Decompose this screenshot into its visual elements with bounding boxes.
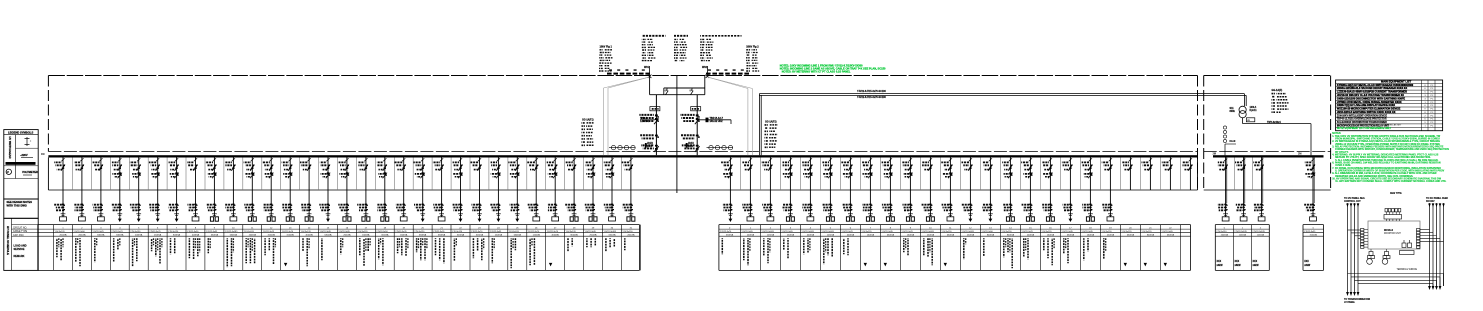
svg-text:YJV22-3x185: YJV22-3x185 (801, 231, 814, 233)
svg-text:REMARK: REMARK (14, 255, 25, 258)
svg-text:200kVA: 200kVA (78, 234, 86, 237)
svg-text:CABLE TYPE: CABLE TYPE (13, 230, 28, 233)
svg-text:YJV-3x120: YJV-3x120 (566, 231, 577, 233)
svg-text:315kVA: 315kVA (457, 234, 465, 237)
svg-text:125kVA: 125kVA (533, 234, 541, 237)
svg-text:315kVA: 315kVA (268, 234, 276, 237)
svg-text:11. ANY MATTERS NOT COVERED SH: 11. ANY MATTERS NOT COVERED SHALL COMPLY… (1335, 180, 1447, 183)
svg-text:~220V: ~220V (20, 153, 28, 157)
svg-text:10kV: 10kV (688, 145, 694, 148)
svg-text:YJV22-3x70: YJV22-3x70 (111, 231, 123, 233)
svg-text:630kVA: 630kVA (1067, 234, 1075, 237)
svg-text:NOTE3: HV METERING WITH CT PT: NOTE3: HV METERING WITH CT PT CLASS 0.2S… (782, 70, 851, 74)
svg-text:YJV-3x150: YJV-3x150 (1101, 231, 1112, 233)
svg-text:200kVA: 200kVA (1027, 234, 1035, 237)
svg-text:Dyn11: Dyn11 (1250, 109, 1258, 112)
svg-text:315kVA: 315kVA (287, 234, 295, 237)
svg-text:YJV22-3x95: YJV22-3x95 (741, 231, 753, 233)
svg-text:W01: W01 (644, 66, 650, 69)
svg-text:YJV-3x150: YJV-3x150 (130, 231, 141, 233)
svg-text:GG-1A(F2): GG-1A(F2) (765, 120, 777, 123)
svg-text:10kV Fig 2: 10kV Fig 2 (746, 46, 759, 49)
svg-text:TO TRANSFORMER RM: TO TRANSFORMER RM (1344, 298, 1370, 301)
svg-text:YJV-3x150: YJV-3x150 (622, 231, 633, 233)
svg-text:YJV22-8.7/15-3x70-SC100: YJV22-8.7/15-3x70-SC100 (857, 90, 887, 93)
svg-text:LEGEND SYMBOLS: LEGEND SYMBOLS (8, 130, 33, 134)
svg-text:10kV: 10kV (647, 145, 653, 148)
svg-text:YJV22-3x35: YJV22-3x35 (490, 231, 502, 233)
svg-text:TO DC PANEL FEED: TO DC PANEL FEED (1426, 197, 1448, 200)
svg-text:XXX: XXX (1304, 261, 1309, 263)
svg-text:YJV-3x120: YJV-3x120 (452, 231, 463, 233)
svg-text:2M: 2M (1213, 153, 1216, 156)
svg-text:YJV-3x120: YJV-3x120 (357, 231, 368, 233)
svg-text:XXX: XXX (1235, 261, 1240, 263)
svg-text:YJV22-3x25: YJV22-3x25 (92, 231, 104, 233)
svg-text:HV PANEL SCHEDULE: HV PANEL SCHEDULE (6, 226, 10, 255)
svg-text:YJV-3x150: YJV-3x150 (1001, 231, 1012, 233)
svg-text:W02: W02 (702, 66, 708, 69)
svg-text:630kVA: 630kVA (211, 234, 219, 237)
svg-text:YJV22-3x185: YJV22-3x185 (225, 231, 238, 233)
svg-text:YJV22-3x35: YJV22-3x35 (338, 231, 350, 233)
svg-text:YJV22-3x95: YJV22-3x95 (1161, 231, 1173, 233)
svg-text:800kVA: 800kVA (1007, 234, 1015, 237)
svg-text:400kVA: 400kVA (306, 234, 314, 237)
svg-text:630kVA: 630kVA (419, 234, 427, 237)
svg-text:YJV22-3x185: YJV22-3x185 (921, 231, 934, 233)
svg-text:YJV22-3x50: YJV22-3x50 (981, 231, 993, 233)
svg-text:250kVA: 250kVA (495, 234, 503, 237)
svg-text:YJV-3x150: YJV-3x150 (1216, 231, 1227, 233)
svg-text:400kVA: 400kVA (552, 234, 560, 237)
svg-text:315kVA: 315kVA (1310, 234, 1318, 237)
svg-text:YJV22-3x25: YJV22-3x25 (263, 231, 275, 233)
svg-text:200kVA: 200kVA (59, 234, 67, 237)
svg-text:YJV22-3x25: YJV22-3x25 (149, 231, 161, 233)
svg-text:YJV-3x120: YJV-3x120 (244, 231, 255, 233)
svg-text:YJV22-3x95: YJV22-3x95 (433, 231, 445, 233)
svg-text:200kVA: 200kVA (747, 234, 755, 237)
svg-text:YJV22-3x50: YJV22-3x50 (376, 231, 388, 233)
svg-text:400kVA: 400kVA (192, 234, 200, 237)
svg-text:YJV22-3x50: YJV22-3x50 (187, 231, 199, 233)
svg-text:TBP-B-12.7/131 OVERVOLTAGE PRO: TBP-B-12.7/131 OVERVOLTAGE PROTECTOR (1337, 118, 1387, 121)
svg-text:DC110V: DC110V (1426, 201, 1435, 203)
svg-text:YJV-3x120: YJV-3x120 (1121, 231, 1132, 233)
svg-text:M: M (7, 170, 9, 174)
svg-text:YJV-3x150: YJV-3x150 (941, 231, 952, 233)
svg-text:250kVA: 250kVA (343, 234, 351, 237)
svg-text:x8kW: x8kW (1235, 265, 1242, 267)
svg-text:400kVA: 400kVA (847, 234, 855, 237)
svg-text:WITH THIS DWG: WITH THIS DWG (7, 203, 27, 207)
svg-text:12.7/131: 12.7/131 (640, 120, 650, 123)
svg-text:315kVA: 315kVA (476, 234, 484, 237)
svg-text:YJV-3x120: YJV-3x120 (509, 231, 520, 233)
svg-text:XGN TYPE: XGN TYPE (1390, 193, 1402, 195)
svg-text:YJV22-3x185: YJV22-3x185 (604, 231, 617, 233)
svg-text:MONITOR UNIT: MONITOR UNIT (1384, 233, 1401, 235)
svg-text:XXX: XXX (1253, 261, 1258, 263)
svg-text:250kVA: 250kVA (589, 234, 597, 237)
svg-text:YJV22-3x95: YJV22-3x95 (781, 231, 793, 233)
svg-text:DL/dl: DL/dl (1230, 141, 1236, 143)
svg-text:250kVA: 250kVA (967, 234, 975, 237)
svg-text:630kVA: 630kVA (97, 234, 105, 237)
svg-text:YJV22-3x35: YJV22-3x35 (1304, 231, 1316, 233)
svg-text:CONTROL CCT: CONTROL CCT (1344, 201, 1361, 203)
svg-text:630kVA: 630kVA (947, 234, 955, 237)
svg-text:GG-1A(F): GG-1A(F) (1272, 89, 1283, 92)
svg-text:YJV22-3x185: YJV22-3x185 (1234, 231, 1247, 233)
svg-text:x3kW: x3kW (1304, 265, 1311, 267)
svg-text:400kVA: 400kVA (135, 234, 143, 237)
svg-text:800kVA: 800kVA (1147, 234, 1155, 237)
svg-text:800k: 800k (1230, 110, 1236, 113)
svg-text:200kVA: 200kVA (1221, 234, 1229, 237)
svg-text:YJV22-3x185: YJV22-3x185 (1252, 231, 1265, 233)
svg-text:WZJK-II: WZJK-II (1384, 229, 1393, 232)
svg-text:160kVA: 160kVA (867, 234, 875, 237)
svg-text:YJV22-3x185: YJV22-3x185 (821, 231, 834, 233)
svg-text:CAP. (kW): CAP. (kW) (13, 234, 24, 237)
svg-text:HV SWITCHGEAR: HV SWITCHGEAR (8, 137, 12, 159)
svg-text:800kVA: 800kVA (987, 234, 995, 237)
svg-text:160kVA: 160kVA (1087, 234, 1095, 237)
svg-text:LV PANEL: LV PANEL (1344, 301, 1356, 304)
svg-text:TMY-3x40x4: TMY-3x40x4 (1267, 121, 1281, 124)
svg-text:BUSBAR AND SECONDARY COMPONENT: BUSBAR AND SECONDARY COMPONENTS SUPPLIED… (1337, 124, 1402, 127)
svg-text:400kVA: 400kVA (807, 234, 815, 237)
svg-text:630kVA: 630kVA (116, 234, 124, 237)
svg-text:250kVA: 250kVA (1107, 234, 1115, 237)
svg-text:YJV-3x120: YJV-3x120 (55, 231, 66, 233)
svg-text:YJV22-3x70: YJV22-3x70 (528, 231, 540, 233)
svg-text:YJV22-3x70: YJV22-3x70 (901, 231, 913, 233)
svg-text:YJV-3x120: YJV-3x120 (1141, 231, 1152, 233)
svg-text:VOLTMETER: VOLTMETER (22, 170, 38, 174)
svg-text:YJV22-3x50: YJV22-3x50 (73, 231, 85, 233)
svg-text:GG-1A(F1): GG-1A(F1) (582, 118, 594, 121)
svg-text:160kVA: 160kVA (400, 234, 408, 237)
svg-text:TO HV PANEL SEC.: TO HV PANEL SEC. (1344, 197, 1366, 200)
svg-text:YJV22-3x35: YJV22-3x35 (881, 231, 893, 233)
svg-text:200kVA: 200kVA (627, 234, 635, 237)
svg-text:YJV22-3x185: YJV22-3x185 (761, 231, 774, 233)
svg-text:YJV22-3x35: YJV22-3x35 (206, 231, 218, 233)
svg-text:630kVA: 630kVA (514, 234, 522, 237)
svg-text:1M: 1M (41, 153, 44, 156)
svg-text:CIRCUIT NO.: CIRCUIT NO. (13, 227, 27, 229)
svg-text:630kVA: 630kVA (230, 234, 238, 237)
svg-text:800kVA: 800kVA (173, 234, 181, 237)
svg-text:630kVA: 630kVA (726, 234, 734, 237)
svg-text:YJV22-3x35: YJV22-3x35 (1081, 231, 1093, 233)
svg-text:YJV22-3x35: YJV22-3x35 (395, 231, 407, 233)
svg-text:YJV22-3x35: YJV22-3x35 (320, 231, 332, 233)
svg-text:FORMER FEEDERS WITH INSTANT, O: FORMER FEEDERS WITH INSTANT, OVERCURRENT… (1335, 148, 1449, 151)
svg-text:x9kW: x9kW (1253, 265, 1260, 267)
svg-text:250kVA: 250kVA (927, 234, 935, 237)
svg-text:125kVA: 125kVA (767, 234, 775, 237)
svg-text:250kVA: 250kVA (154, 234, 162, 237)
svg-text:250kVA: 250kVA (787, 234, 795, 237)
svg-text:YJV-3x120: YJV-3x120 (168, 231, 179, 233)
svg-text:YJV-3x120: YJV-3x120 (861, 231, 872, 233)
svg-text:YJV22-3x70: YJV22-3x70 (282, 231, 294, 233)
svg-text:125kVA: 125kVA (1257, 234, 1265, 237)
svg-text:YJV22-3x70: YJV22-3x70 (1021, 231, 1033, 233)
svg-text:YJV22-3x70: YJV22-3x70 (471, 231, 483, 233)
svg-text:630kVA: 630kVA (887, 234, 895, 237)
svg-text:YJV22-3x35: YJV22-3x35 (585, 231, 597, 233)
svg-text:YJV-3x120: YJV-3x120 (414, 231, 425, 233)
svg-text:125kVA: 125kVA (1239, 234, 1247, 237)
svg-text:YJV-3x120: YJV-3x120 (301, 231, 312, 233)
svg-text:630kVA: 630kVA (1167, 234, 1175, 237)
svg-text:YJV22-3x70: YJV22-3x70 (547, 231, 559, 233)
svg-text:NOTE: EQUIPMENT LIST FOR REFER: NOTE: EQUIPMENT LIST FOR REFERENCE ONLY (1337, 128, 1392, 130)
svg-text:TERMINAL WIRING: TERMINAL WIRING (1397, 268, 1418, 271)
svg-text:JN15-12/31.5 EARTHING SWITCH X: JN15-12/31.5 EARTHING SWITCH XXKK XXXX X… (1337, 111, 1396, 114)
svg-text:800kVA: 800kVA (571, 234, 579, 237)
svg-text:XXX: XXX (1217, 261, 1222, 263)
svg-text:YJV22-3x70: YJV22-3x70 (720, 231, 732, 233)
svg-text:200kVA: 200kVA (249, 234, 257, 237)
svg-text:160kVA: 160kVA (907, 234, 915, 237)
svg-text:315kVA: 315kVA (608, 234, 616, 237)
svg-text:630kVA: 630kVA (1127, 234, 1135, 237)
svg-text:YJV22-3x35: YJV22-3x35 (1061, 231, 1073, 233)
svg-text:ZSN-10KV INTELLIGENT OPERATION: ZSN-10KV INTELLIGENT OPERATION DEVICE (1337, 114, 1388, 117)
svg-text:2M: 2M (1298, 153, 1301, 156)
svg-text:YJV-3x120: YJV-3x120 (1041, 231, 1052, 233)
svg-text:315kVA: 315kVA (381, 234, 389, 237)
svg-text:125kVA: 125kVA (827, 234, 835, 237)
svg-text:630kVA: 630kVA (324, 234, 332, 237)
svg-text:160kVA: 160kVA (362, 234, 370, 237)
svg-text:160kVA: 160kVA (1047, 234, 1055, 237)
svg-text:10kV Fig 1: 10kV Fig 1 (600, 46, 613, 49)
svg-text:YJV22-8.7/15-3x70-SC100: YJV22-8.7/15-3x70-SC100 (857, 96, 887, 99)
svg-text:630kVA: 630kVA (438, 234, 446, 237)
svg-text:131-x2 JDZ: 131-x2 JDZ (710, 120, 724, 123)
svg-text:YJV22-3x70: YJV22-3x70 (841, 231, 853, 233)
svg-text:SERVICE: SERVICE (14, 248, 25, 251)
svg-text:YJV22-3x185: YJV22-3x185 (961, 231, 974, 233)
svg-text:x6kW: x6kW (1217, 265, 1224, 267)
